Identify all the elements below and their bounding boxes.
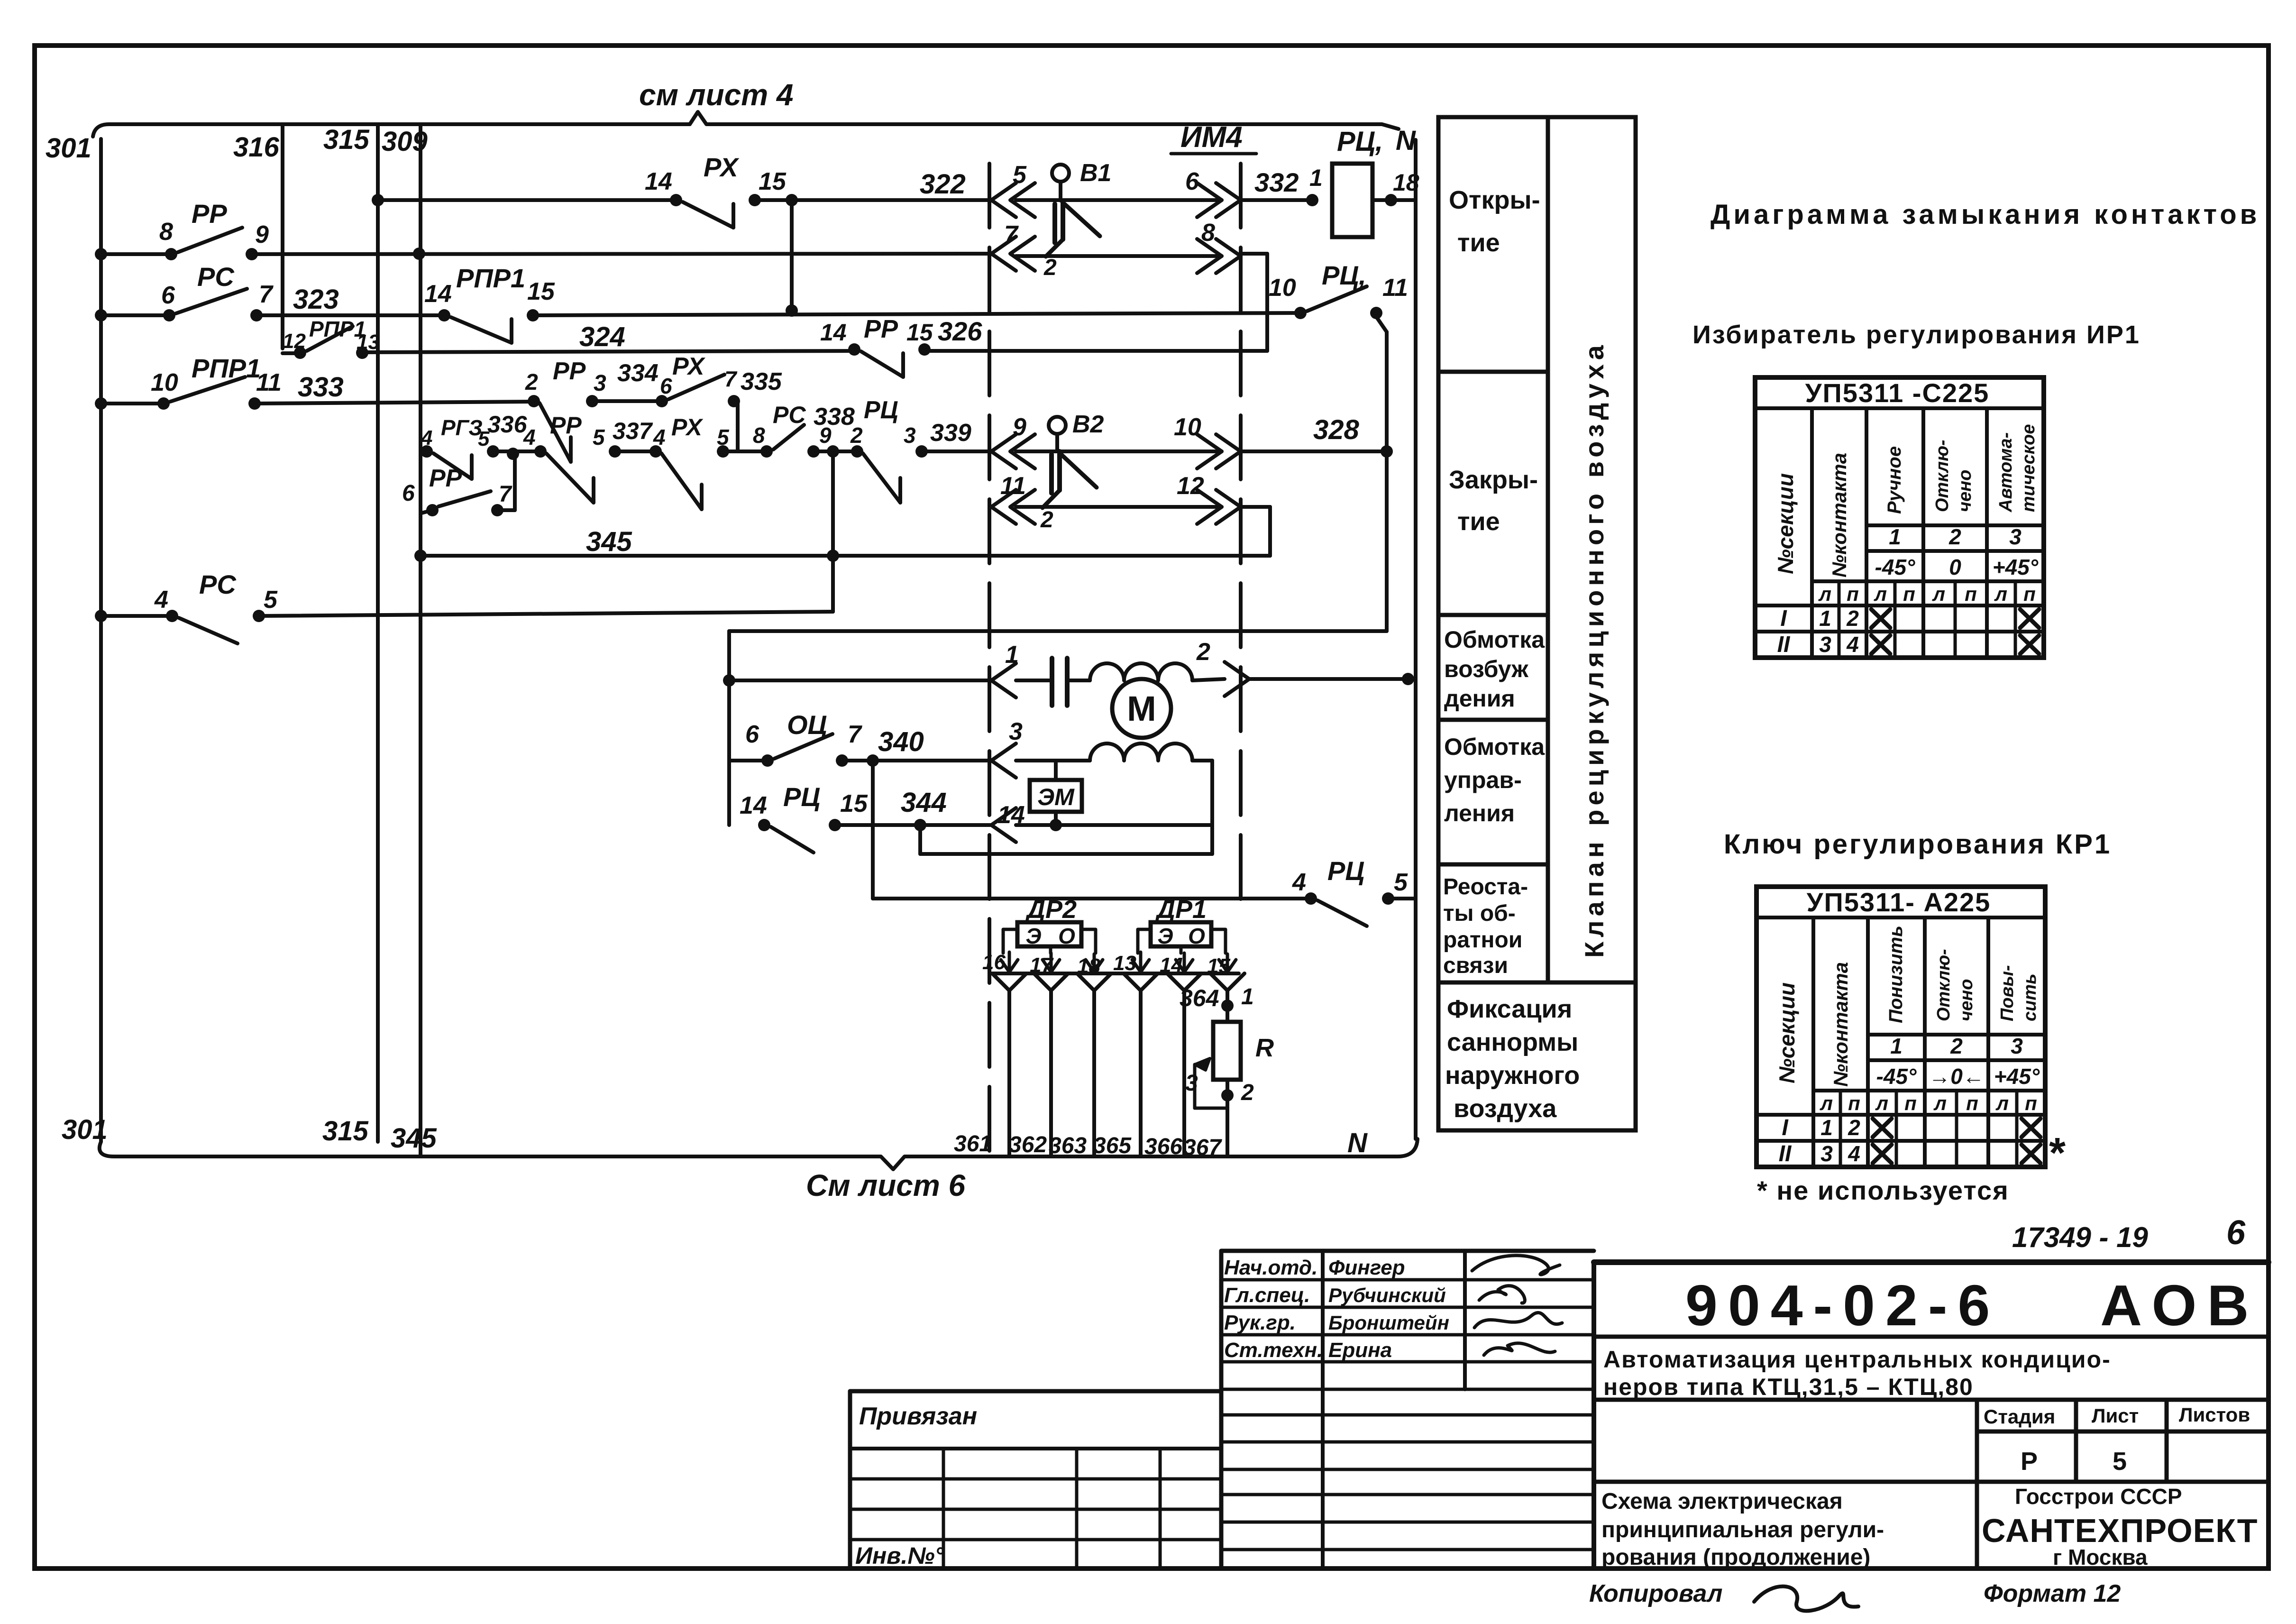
svg-text:365: 365: [1093, 1133, 1132, 1158]
svg-text:Ручное: Ручное: [1884, 446, 1905, 514]
wire ОЦ junction down: [871, 761, 875, 899]
svg-text:904-02-6: 904-02-6: [1685, 1273, 2000, 1338]
wire РЦ5 to N: [1388, 897, 1416, 900]
svg-text:*: *: [2049, 1129, 2066, 1177]
contact РР 2-3 row E: [528, 395, 540, 407]
table ИР1 frame: [1755, 377, 2044, 658]
svg-text:РГЗ: РГЗ: [441, 415, 483, 440]
svg-text:1: 1: [1820, 1115, 1833, 1140]
svg-text:воздуха: воздуха: [1454, 1094, 1557, 1123]
svg-text:л: л: [1933, 1092, 1947, 1114]
svg-text:РЦ: РЦ: [783, 782, 820, 812]
svg-text:337: 337: [613, 418, 653, 444]
svg-text:РР: РР: [192, 199, 227, 229]
svg-text:РР: РР: [864, 315, 898, 343]
svg-text:14: 14: [645, 168, 672, 195]
svg-text:I: I: [1780, 606, 1787, 631]
resistor R: [1213, 1022, 1241, 1080]
wire to РС 8-9: [723, 450, 767, 453]
svg-text:ЭМ: ЭМ: [1037, 784, 1075, 810]
svg-text:4: 4: [523, 425, 536, 450]
svg-text:II: II: [1779, 1141, 1792, 1166]
contact РЦ 2-3 row F: [851, 445, 863, 458]
svg-text:Закры-: Закры-: [1449, 466, 1538, 494]
svg-text:Ерина: Ерина: [1328, 1339, 1392, 1362]
wire 366: [1167, 973, 1201, 991]
names table row line: [1221, 1521, 1594, 1524]
pin 5 arrow: [991, 183, 1016, 217]
pin 12 arrow: [1197, 490, 1222, 524]
svg-text:РХ: РХ: [672, 353, 706, 380]
svg-text:-45°: -45°: [1875, 555, 1915, 579]
svg-text:Понизить: Понизить: [1885, 926, 1906, 1023]
device ИМ4 boundary right: [1239, 164, 1243, 901]
svg-text:дения: дения: [1444, 685, 1515, 712]
svg-text:п: п: [1966, 1092, 1978, 1114]
wire row 14 to winding return: [1016, 823, 1212, 827]
svg-text:7: 7: [259, 281, 274, 308]
svg-text:л: л: [1875, 1092, 1888, 1114]
wire row РС 6-7 / 323: [101, 313, 169, 317]
table КР1 frame: [1756, 887, 2045, 1167]
svg-text:10: 10: [1269, 274, 1296, 302]
wire 328: [1241, 450, 1387, 453]
contact РЦ 10-11: [1294, 307, 1307, 319]
svg-text:14: 14: [424, 280, 452, 308]
svg-text:Э: Э: [1025, 924, 1041, 948]
svg-text:4: 4: [1292, 869, 1306, 896]
svg-text:8: 8: [159, 218, 173, 246]
svg-text:361: 361: [954, 1131, 992, 1156]
svg-text:РР: РР: [550, 412, 582, 439]
title block top edge: [1594, 1259, 2269, 1265]
svg-text:Листов: Листов: [2179, 1404, 2250, 1426]
svg-text:п: п: [1965, 583, 1977, 605]
svg-text:саннормы: саннормы: [1447, 1028, 1578, 1056]
wire 367 to R: [1210, 973, 1244, 991]
svg-text:3: 3: [1185, 1071, 1198, 1096]
svg-text:7: 7: [1004, 221, 1019, 248]
svg-text:л: л: [1995, 1092, 2009, 1114]
names table row line: [1221, 1388, 1594, 1391]
svg-text:Рубчинский: Рубчинский: [1328, 1284, 1446, 1306]
wire 338: [814, 450, 857, 453]
wire bus 301: [99, 139, 103, 1142]
svg-text:Клапан рециркуляционного возду: Клапан рециркуляционного воздуха: [1579, 341, 1609, 958]
svg-text:Фиксация: Фиксация: [1447, 995, 1572, 1023]
wire coil to N: [1372, 198, 1416, 202]
pin 7 arrow: [991, 237, 1016, 271]
svg-text:Стадия: Стадия: [1984, 1405, 2055, 1428]
svg-text:315: 315: [322, 1116, 369, 1147]
svg-text:N: N: [1347, 1128, 1368, 1158]
wire 365: [1124, 973, 1158, 991]
wire 333: [255, 402, 534, 404]
svg-text:Госстрои СССР: Госстрои СССР: [2015, 1484, 2182, 1509]
svg-text:322: 322: [920, 169, 966, 200]
names table row line: [1221, 1468, 1594, 1471]
svg-text:4: 4: [1848, 1141, 1860, 1166]
wire bracket 345 to ИМ4 pin12: [1268, 507, 1272, 556]
wire pin2 to N: [1249, 677, 1408, 681]
wire row РС 4-5: [101, 614, 172, 618]
signature Фингер: [1472, 1256, 1560, 1275]
contact РГЗ 4-5: [421, 445, 433, 458]
svg-text:тие: тие: [1457, 507, 1500, 536]
svg-text:№контакта: №контакта: [1829, 962, 1852, 1087]
svg-text:4: 4: [154, 586, 168, 614]
svg-text:-45°: -45°: [1876, 1064, 1917, 1089]
wire 362: [1034, 973, 1068, 991]
svg-text:РХ: РХ: [704, 152, 740, 182]
svg-text:10: 10: [151, 369, 178, 396]
svg-text:ты об-: ты об-: [1443, 901, 1516, 926]
wire row РЦ 4-5: [873, 897, 1311, 900]
svg-text:345: 345: [586, 526, 632, 557]
svg-text:УП5311 -С225: УП5311 -С225: [1805, 378, 1990, 408]
svg-text:N: N: [1396, 125, 1416, 156]
pin 11 arrow: [991, 490, 1016, 524]
svg-text:328: 328: [1313, 414, 1360, 445]
capacitor C: [1050, 658, 1054, 706]
svg-text:6: 6: [402, 481, 415, 506]
wire bracket 326 to ИМ4 pin8: [1265, 254, 1269, 351]
svg-text:управ-: управ-: [1444, 767, 1522, 793]
wire capacitor to winding: [1067, 679, 1090, 682]
wire ДР manifold: [989, 972, 1239, 975]
svg-text:12: 12: [283, 330, 306, 353]
svg-text:2: 2: [1848, 1115, 1860, 1140]
contact РПР1 10-11: [157, 397, 170, 410]
wire 334: [592, 399, 662, 403]
svg-text:7: 7: [724, 367, 738, 391]
svg-text:17349 - 19: 17349 - 19: [2012, 1221, 2149, 1253]
svg-text:Гл.спец.: Гл.спец.: [1224, 1284, 1310, 1307]
wire 339 to В2: [922, 450, 991, 453]
svg-text:Повы-: Повы-: [1997, 965, 2017, 1021]
contact РХ 14-15: [670, 194, 682, 206]
wire 326: [924, 349, 1267, 353]
svg-text:п: п: [2023, 583, 2036, 605]
svg-text:12: 12: [1177, 472, 1204, 500]
svg-text:2: 2: [1950, 1034, 1963, 1058]
svg-text:РЦ,: РЦ,: [1337, 126, 1383, 157]
motor M: [1112, 679, 1171, 738]
svg-text:РС: РС: [197, 262, 235, 292]
svg-text:15: 15: [527, 278, 555, 305]
svg-text:5: 5: [593, 425, 605, 450]
wire 361: [992, 973, 1026, 991]
svg-text:п: п: [1903, 583, 1915, 605]
svg-text:333: 333: [298, 372, 344, 403]
svg-text:13: 13: [357, 330, 380, 354]
svg-text:301: 301: [46, 133, 91, 164]
wire top bus см лист 4: [93, 112, 1399, 137]
svg-text:неров типа КТЦ,31,5 – КТЦ,80: неров типа КТЦ,31,5 – КТЦ,80: [1603, 1374, 1974, 1400]
svg-text:Обмотка: Обмотка: [1444, 734, 1545, 760]
wire N line: [1414, 140, 1418, 1139]
names table row line: [1221, 1360, 1594, 1364]
function label box: [1438, 117, 1636, 1130]
svg-text:ДР1: ДР1: [1155, 895, 1207, 924]
wire row F: [493, 450, 540, 453]
svg-text:возбуж: возбуж: [1444, 656, 1528, 682]
svg-text:5: 5: [264, 586, 278, 614]
wire arrow3 to winding: [1016, 759, 1090, 762]
svg-text:РЦ: РЦ: [1327, 856, 1364, 886]
svg-text:5: 5: [717, 425, 730, 450]
svg-text:I: I: [1782, 1115, 1789, 1140]
svg-text:л: л: [1818, 583, 1831, 605]
wire bus 316: [281, 124, 284, 349]
svg-text:3: 3: [2009, 524, 2022, 549]
wire 316 to РПР1 12-13: [283, 351, 300, 355]
svg-text:чено: чено: [1957, 979, 1976, 1021]
wire arrow to capacitor: [1016, 679, 1052, 682]
svg-text:336: 336: [487, 411, 528, 438]
wire winding to pin2: [1192, 679, 1225, 680]
svg-text:338: 338: [814, 403, 855, 431]
svg-text:8: 8: [1201, 219, 1215, 247]
svg-text:САНТЕХПРОЕКТ: САНТЕХПРОЕКТ: [1982, 1512, 2258, 1549]
svg-text:Нач.отд.: Нач.отд.: [1224, 1256, 1317, 1279]
contact ОЦ 6-7: [729, 759, 768, 762]
svg-text:Лист: Лист: [2092, 1404, 2139, 1427]
svg-text:2: 2: [1241, 1080, 1254, 1105]
svg-text:9: 9: [1013, 413, 1026, 441]
svg-text:РС: РС: [773, 402, 806, 428]
wire R bottom: [1226, 1080, 1229, 1156]
contact РЦ 14-15: [758, 819, 770, 831]
svg-text:335: 335: [741, 368, 782, 395]
wire 345 row: [421, 554, 1270, 558]
svg-text:332: 332: [1254, 167, 1299, 197]
names table row line: [1221, 1440, 1594, 1444]
svg-text:тие: тие: [1457, 229, 1500, 257]
svg-text:Откры-: Откры-: [1449, 186, 1540, 214]
svg-text:326: 326: [938, 316, 982, 346]
R wiper: [1195, 1058, 1210, 1070]
svg-text:+45°: +45°: [1994, 1064, 2040, 1089]
svg-text:РЦ: РЦ: [864, 396, 898, 424]
svg-text:367: 367: [1183, 1135, 1222, 1160]
svg-text:М: М: [1127, 689, 1156, 728]
svg-text:л: л: [1932, 583, 1945, 605]
contact РР 8-9: [165, 248, 177, 260]
contact РС 8-9: [760, 445, 773, 458]
svg-text:Р: Р: [2021, 1447, 2038, 1476]
contact РР 4-5 row F: [534, 445, 547, 458]
contact РР 14-15 row D: [848, 343, 860, 356]
device ДР2: [1017, 922, 1081, 946]
svg-text:Э: Э: [1157, 924, 1173, 948]
wire link 322-323: [790, 200, 794, 311]
svg-text:301: 301: [62, 1114, 108, 1145]
ДР2 side taps: [1003, 929, 1017, 953]
signature Бронштейн: [1474, 1312, 1562, 1328]
svg-text:364: 364: [1180, 985, 1219, 1011]
wire 324: [362, 351, 854, 352]
svg-text:ДР2: ДР2: [1025, 895, 1077, 924]
svg-text:О: О: [1058, 924, 1075, 948]
svg-text:сить: сить: [2020, 973, 2040, 1021]
wire row 322: [378, 198, 676, 202]
svg-text:2: 2: [1846, 606, 1859, 631]
svg-text:+45°: +45°: [1993, 555, 2039, 579]
pin 6 arrow: [1197, 183, 1222, 217]
svg-text:6: 6: [1185, 168, 1199, 195]
svg-text:14: 14: [820, 319, 847, 346]
wire field row 1: [723, 674, 735, 687]
svg-text:362: 362: [1009, 1132, 1047, 1157]
svg-text:0: 0: [1949, 555, 1961, 579]
signature Ерина: [1484, 1343, 1555, 1355]
wire В2 bottom out: [1016, 505, 1222, 509]
svg-text:6: 6: [660, 374, 672, 398]
names table row line: [1221, 1548, 1594, 1551]
svg-text:РХ: РХ: [671, 414, 703, 440]
svg-text:4: 4: [421, 426, 432, 450]
svg-text:334: 334: [617, 359, 659, 387]
svg-text:№секции: №секции: [1773, 473, 1798, 574]
names table row line: [1221, 1278, 1594, 1282]
wire row РПР1 10-11 / 333: [101, 402, 164, 405]
svg-text:14: 14: [740, 792, 767, 819]
svg-text:РЦ,: РЦ,: [1322, 260, 1366, 290]
wire 335 step down: [734, 399, 738, 403]
wire 332: [1241, 198, 1312, 202]
signature Копировал: [1754, 1587, 1858, 1611]
svg-text:В1: В1: [1080, 159, 1111, 187]
svg-text:Рук.гр.: Рук.гр.: [1224, 1311, 1296, 1334]
svg-text:п: п: [1847, 583, 1859, 605]
svg-text:см лист 4: см лист 4: [639, 78, 794, 112]
svg-text:1: 1: [1819, 606, 1831, 631]
svg-text:принципиальная регули-: принципиальная регули-: [1601, 1517, 1884, 1542]
wire 322: [755, 198, 991, 202]
wire ЭМ stem top: [1054, 761, 1058, 780]
svg-text:АОВ: АОВ: [2100, 1273, 2259, 1338]
names table row line: [1221, 1413, 1594, 1417]
svg-text:Копировал: Копировал: [1589, 1580, 1722, 1607]
svg-text:Диаграмма замыкания контактов: Диаграмма замыкания контактов: [1711, 199, 2260, 230]
wire В1 bottom out: [1016, 254, 1222, 258]
wire row C to РЦ 10-11: [533, 313, 1300, 315]
svg-text:→0←: →0←: [1929, 1064, 1985, 1089]
contact РС 6-7: [163, 309, 175, 321]
stage mini table: [1975, 1400, 1979, 1569]
signature Рубчинский: [1479, 1286, 1525, 1303]
pin 10 arrow: [1197, 434, 1222, 468]
names table row line: [1221, 1333, 1594, 1337]
svg-text:1: 1: [1890, 1034, 1903, 1058]
svg-text:РР: РР: [553, 358, 586, 385]
svg-text:3: 3: [2011, 1034, 2023, 1058]
svg-text:наружного: наружного: [1445, 1061, 1580, 1090]
svg-text:РПР1: РПР1: [456, 263, 525, 293]
svg-text:Привязан: Привязан: [859, 1403, 977, 1430]
svg-text:5: 5: [1013, 161, 1027, 189]
svg-text:Ст.техн.: Ст.техн.: [1224, 1339, 1323, 1362]
contact РХ 4-5 row F: [649, 445, 662, 458]
contact РХ 6-7 row E: [656, 395, 668, 407]
svg-text:* не используется: * не используется: [1757, 1175, 2009, 1205]
svg-text:3: 3: [1820, 1141, 1833, 1166]
device ЭМ: [1030, 780, 1082, 812]
names table row line: [1221, 1306, 1594, 1309]
svg-text:2: 2: [1948, 524, 1961, 549]
svg-text:Автома-: Автома-: [1996, 432, 2016, 513]
svg-text:339: 339: [930, 419, 971, 447]
wire 363: [1077, 973, 1111, 991]
svg-text:Ключ регулирования КР1: Ключ регулирования КР1: [1724, 829, 2112, 860]
wire РЦ11 return: [1376, 317, 1387, 332]
svg-text:15: 15: [759, 168, 787, 195]
svg-text:5: 5: [1394, 869, 1408, 896]
svg-text:3: 3: [1819, 632, 1831, 657]
pin 8 arrow: [1197, 239, 1222, 273]
names table row line: [1221, 1493, 1594, 1496]
wire winding return: [1192, 759, 1212, 762]
svg-text:УП5311- А225: УП5311- А225: [1807, 887, 1991, 917]
svg-text:РР: РР: [429, 465, 462, 492]
ДР1 side taps: [1138, 929, 1151, 953]
svg-text:8: 8: [753, 423, 765, 448]
svg-text:5: 5: [2113, 1447, 2127, 1476]
wire lower return: [918, 825, 922, 854]
names table frame: [1221, 1249, 1594, 1253]
svg-text:II: II: [1777, 632, 1791, 657]
svg-text:тическое: тическое: [2019, 424, 2039, 513]
svg-text:3: 3: [1009, 718, 1023, 745]
field winding: [1090, 663, 1192, 680]
wire left bracket: [727, 631, 731, 825]
svg-text:1: 1: [1889, 524, 1901, 549]
svg-text:R: R: [1255, 1034, 1274, 1062]
svg-text:366: 366: [1144, 1134, 1182, 1159]
svg-text:344: 344: [901, 787, 947, 818]
wire 323: [256, 313, 444, 317]
svg-text:6: 6: [2226, 1214, 2246, 1252]
wire 340: [842, 759, 991, 762]
svg-text:2: 2: [1196, 638, 1210, 666]
svg-text:связи: связи: [1443, 953, 1508, 978]
svg-text:15: 15: [840, 790, 868, 817]
svg-text:ления: ления: [1444, 800, 1515, 826]
svg-text:18: 18: [1393, 169, 1419, 196]
svg-text:Бронштейн: Бронштейн: [1328, 1312, 1449, 1334]
svg-text:323: 323: [293, 284, 339, 315]
svg-text:рования (продолжение): рования (продолжение): [1601, 1545, 1870, 1570]
contact РР 6-7 blade: [439, 491, 491, 506]
wire bottom bus См лист 6: [100, 1139, 1418, 1169]
svg-text:7: 7: [499, 482, 512, 507]
svg-text:п: п: [2025, 1092, 2037, 1114]
svg-text:3: 3: [904, 423, 916, 448]
svg-text:324: 324: [579, 321, 625, 352]
svg-text:2: 2: [525, 370, 538, 395]
wire row РР 6-7: [421, 510, 432, 513]
wire row B to ИМ4: [252, 254, 991, 254]
wire to junction 1757: [259, 612, 833, 616]
svg-text:л: л: [1820, 1092, 1833, 1114]
svg-text:Обмотка: Обмотка: [1444, 626, 1545, 653]
svg-text:15: 15: [906, 319, 933, 346]
svg-text:340: 340: [878, 726, 924, 757]
svg-text:ОЦ: ОЦ: [787, 710, 827, 740]
svg-text:2: 2: [850, 423, 863, 448]
contact РПР1 12-13: [294, 347, 306, 359]
